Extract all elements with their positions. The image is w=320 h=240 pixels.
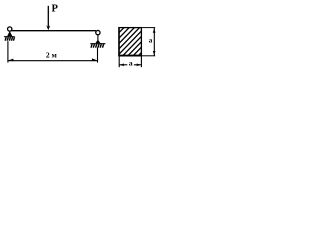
section height top extension line: [142, 27, 156, 29]
section height dimension line: [153, 28, 155, 56]
svg-text:а: а: [149, 36, 153, 44]
section width right arrowhead: [137, 64, 141, 67]
span dimension left extension line: [7, 41, 9, 62]
right support triangle: [95, 40, 100, 44]
right support stem: [97, 35, 99, 41]
span dimension line: [8, 60, 98, 62]
section width right extension line: [140, 56, 142, 67]
load arrowhead: [46, 25, 50, 30]
load arrow P shaft: [47, 6, 49, 27]
section width dimension line right segment: [134, 64, 141, 66]
cross-section bottom edge emphasis: [118, 55, 141, 57]
cross-section hatching: [96, 27, 167, 57]
left support ground line: [4, 36, 15, 38]
right support roller circle: [96, 30, 100, 34]
section height bottom arrowhead: [153, 51, 156, 55]
section width left extension line: [118, 56, 120, 67]
left support triangle: [7, 31, 12, 36]
section height bottom extension line: [142, 55, 156, 57]
svg-text:а: а: [129, 58, 133, 67]
cross-section square outline: [119, 28, 141, 56]
section height top arrowhead: [153, 28, 156, 33]
left support pin circle: [8, 27, 12, 31]
cross-section left edge emphasis: [118, 27, 120, 56]
section width left arrowhead: [120, 64, 124, 67]
span dimension right extension line: [97, 48, 99, 63]
section width dimension line left segment: [119, 64, 127, 66]
beam: [11, 30, 97, 32]
left support ground hatching: [5, 37, 14, 41]
svg-text:P: P: [52, 4, 59, 15]
span dimension left arrowhead: [9, 59, 14, 62]
right support ground hatching: [91, 44, 104, 48]
right support ground line: [90, 43, 105, 45]
span dimension right arrowhead: [92, 58, 97, 61]
svg-text:2 м: 2 м: [46, 51, 57, 60]
